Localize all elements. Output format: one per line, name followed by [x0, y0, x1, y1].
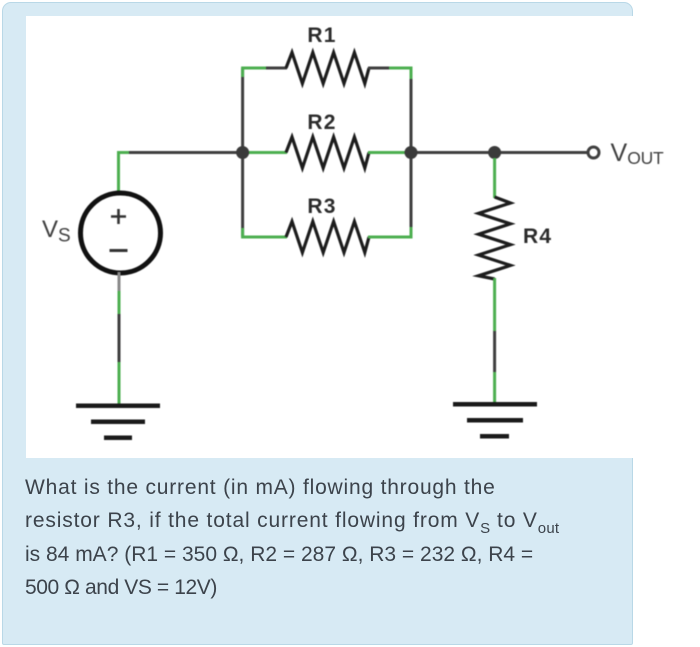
- wire: left vertical bus: [241, 68, 244, 237]
- wire below VS: dark segment: [118, 314, 121, 362]
- ground (left) bar2: [91, 420, 145, 425]
- wire: green nub at Vs top corner: [117, 151, 129, 154]
- plus sign of VS: [111, 209, 126, 224]
- ground (left) bar3: [104, 436, 132, 441]
- wire: green vertical from Vs top to main wire: [117, 151, 120, 193]
- circuit white area: [26, 16, 700, 458]
- resistor R3 left lead: [243, 236, 287, 239]
- resistor R1 right lead: [368, 67, 389, 70]
- wire: green corner nubs on right bus: [410, 67, 413, 80]
- svg-text:VS: VS: [42, 216, 71, 247]
- voltage source VS circle: [81, 193, 161, 273]
- ground (left) bar1: [76, 404, 160, 409]
- resistor R2 right lead: [368, 151, 405, 154]
- svg-text:R4: R4: [523, 225, 552, 248]
- question text: [25, 471, 665, 604]
- resistor R3 right lead: [368, 236, 411, 239]
- wire: green from R4 node down: [493, 158, 496, 198]
- terminal VOUT open circle: [588, 147, 599, 158]
- minus sign of VS: [110, 249, 128, 252]
- wire below VS: green segment to ground: [118, 362, 121, 406]
- svg-text:R2: R2: [307, 111, 336, 134]
- node: R4 junction: [488, 146, 501, 159]
- wire: main horizontal from Vs to left node: [117, 151, 242, 154]
- ground (right) bar3: [480, 434, 509, 439]
- wire below R4: green segment: [493, 278, 496, 331]
- ground (right) bar1: [453, 402, 537, 407]
- resistor R2 zigzag: [286, 137, 369, 168]
- node: left junction: [236, 146, 249, 159]
- svg-text:R1: R1: [307, 24, 336, 47]
- resistor R4 zigzag (vertical): [479, 197, 511, 279]
- wire: right node to VOUT terminal: [411, 151, 588, 154]
- wire: right vertical bus: [410, 68, 413, 237]
- svg-text:R3: R3: [307, 195, 336, 218]
- wire below VS: green segment: [118, 291, 121, 314]
- wire below R4: green segment to ground: [493, 372, 496, 404]
- resistor R3 zigzag: [286, 222, 369, 253]
- node: right junction: [405, 146, 418, 159]
- resistor R1 left lead: [243, 67, 266, 70]
- resistor R2 left lead: [249, 151, 287, 154]
- ground (right) bar2: [467, 418, 523, 423]
- wire below VS: gray stub: [118, 272, 121, 291]
- wire below R4: dark segment: [493, 331, 496, 372]
- resistor R1 zigzag: [286, 53, 369, 84]
- wire: green corner nubs on left bus: [241, 67, 244, 78]
- svg-text:VOUT: VOUT: [611, 139, 665, 168]
